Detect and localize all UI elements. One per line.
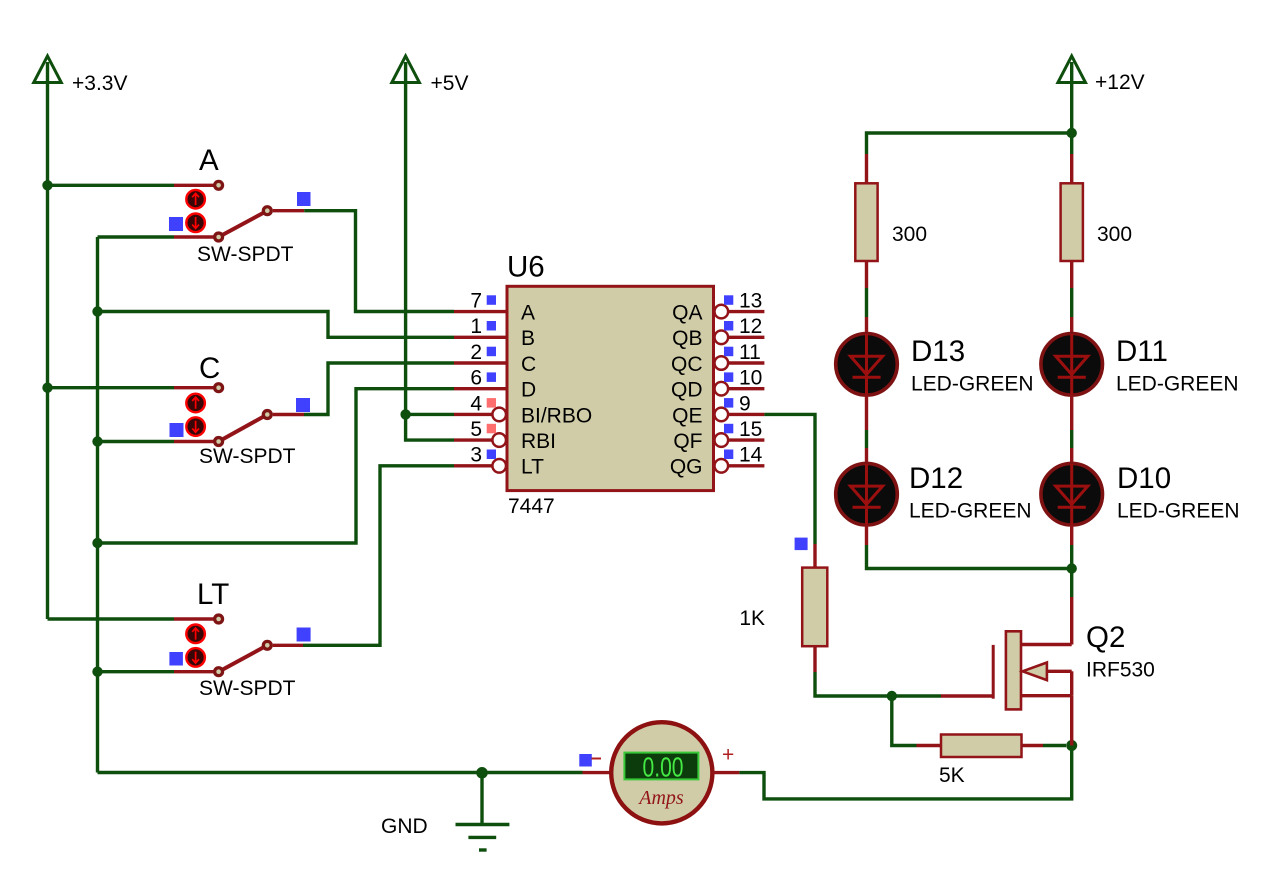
pin switch A top contact <box>174 184 214 187</box>
pin U6 D (6) <box>454 367 536 402</box>
wire ground rail vertical x=97.5 <box>96 237 99 773</box>
node +3.3V junction at switch A <box>42 180 52 190</box>
wire rail to U6 pin D <box>98 389 455 543</box>
switch A SW-SPDT <box>197 144 294 266</box>
op-amp U6 7447 body <box>507 251 714 519</box>
wire D12 bottom to drain rail <box>867 525 1072 569</box>
node rail junction C bottom <box>92 436 102 446</box>
pin U6 QG (14) <box>670 444 765 479</box>
svg-text:SW-SPDT: SW-SPDT <box>199 677 296 700</box>
svg-text:U6: U6 <box>507 251 545 284</box>
LED D12 LED-GREEN <box>836 462 1032 525</box>
pin switch C pole <box>273 413 304 416</box>
svg-text:LED-GREEN: LED-GREEN <box>911 373 1034 396</box>
wire 5K right to junction <box>1043 744 1066 747</box>
switch A up button <box>186 190 205 209</box>
ground <box>381 773 509 850</box>
node +12V junction <box>1067 128 1077 138</box>
pin Q2 gate <box>941 694 993 697</box>
svg-text:300: 300 <box>1097 223 1132 246</box>
svg-text:1K: 1K <box>739 607 765 630</box>
switch C down button <box>186 417 205 436</box>
pin U6 QC (11) <box>671 341 764 376</box>
svg-text:5: 5 <box>470 418 482 441</box>
transistor Q2 IRF530 <box>993 597 1155 746</box>
svg-text:15: 15 <box>739 418 762 441</box>
svg-text:300: 300 <box>892 223 927 246</box>
wire switch C bottom to rail <box>98 440 175 443</box>
pin U6 QD (10) <box>671 367 764 402</box>
svg-text:C: C <box>199 352 220 385</box>
svg-text:QF: QF <box>673 430 702 453</box>
svg-text:4: 4 <box>470 392 482 415</box>
wire +3.3V to switch C top <box>48 386 175 389</box>
svg-text:D10: D10 <box>1117 462 1171 495</box>
marker blue square switch C right <box>296 398 310 412</box>
wire switch A bottom to rail <box>98 235 175 238</box>
pin U6 QF (15) <box>673 418 764 453</box>
wire drain junction down <box>1070 569 1073 598</box>
svg-text:14: 14 <box>739 444 763 467</box>
svg-text:SW-SPDT: SW-SPDT <box>197 243 294 266</box>
wire ground bus to ammeter <box>98 771 583 774</box>
wire +12V rail down to junction <box>1070 82 1073 154</box>
svg-text:9: 9 <box>739 392 751 415</box>
svg-text:7: 7 <box>470 290 482 313</box>
marker blue square 1K <box>795 538 808 551</box>
LED D11 LED-GREEN <box>1041 334 1239 396</box>
pin U6 B (1) <box>454 315 535 350</box>
svg-text:+3.3V: +3.3V <box>72 72 127 95</box>
wire junction continues <box>1070 545 1073 569</box>
svg-text:BI/RBO: BI/RBO <box>521 404 592 427</box>
pin U6 QE (9) <box>672 392 764 427</box>
wire 300 right to D11 <box>1070 261 1073 334</box>
svg-text:5K: 5K <box>939 764 965 787</box>
LED D13 LED-GREEN <box>836 334 1034 396</box>
svg-text:LT: LT <box>521 456 544 479</box>
svg-text:D12: D12 <box>909 462 963 495</box>
svg-text:LED-GREEN: LED-GREEN <box>909 500 1032 523</box>
node rail junction LT bottom <box>92 667 102 677</box>
wire +3.3V rail vertical <box>46 82 49 619</box>
pin U6 LT (3) <box>454 444 544 479</box>
wire switch C pole to U6 pin C <box>304 363 454 415</box>
marker blue square switch A right <box>297 192 311 206</box>
power +3.3V symbol <box>34 56 128 95</box>
power +12V symbol <box>1058 56 1145 94</box>
wire switch A pole to U6 pin A <box>304 211 454 312</box>
svg-text:10: 10 <box>739 367 762 390</box>
resistor 300 right <box>1061 154 1132 261</box>
svg-text:6: 6 <box>470 367 482 390</box>
svg-text:C: C <box>521 353 536 376</box>
svg-text:11: 11 <box>739 341 761 364</box>
svg-text:2: 2 <box>470 341 482 364</box>
marker blue square ammeter <box>579 754 592 767</box>
pin 5K left <box>917 744 942 747</box>
wire junction down to resistor 5K <box>892 696 917 746</box>
svg-text:A: A <box>521 302 535 325</box>
ammeter Amps meter <box>611 722 712 823</box>
svg-text:A: A <box>199 144 219 177</box>
node source/5K junction <box>1066 740 1077 751</box>
wire D11 to D10 <box>1070 395 1073 464</box>
pin switch LT top contact <box>174 617 214 620</box>
wire D13 to D12 <box>865 395 868 464</box>
svg-text:+5V: +5V <box>431 72 469 95</box>
marker blue square switch A left <box>169 217 183 231</box>
wire top rail to left LED branch <box>867 133 1072 154</box>
svg-text:Q2: Q2 <box>1086 621 1125 654</box>
svg-text:LED-GREEN: LED-GREEN <box>1117 500 1240 523</box>
marker blue square switch LT right <box>297 628 311 642</box>
resistor 5K <box>939 735 1022 788</box>
wire +5V rail vertical <box>406 82 454 440</box>
marker blue square switch C left <box>170 423 184 437</box>
pin switch LT bottom contact <box>174 670 214 673</box>
svg-text:B: B <box>521 327 535 350</box>
pin switch C top contact <box>174 386 214 389</box>
wire 300 left to D13 <box>865 261 868 334</box>
wire rail to U6 pin B <box>98 312 455 338</box>
pin switch A bottom contact <box>174 235 214 238</box>
node rail junction B row <box>92 306 102 316</box>
pin U6 BI/RBO (4) <box>454 392 592 427</box>
svg-text:QC: QC <box>671 353 703 376</box>
node drain junction <box>1067 563 1077 573</box>
svg-text:QD: QD <box>671 379 703 402</box>
svg-text:GND: GND <box>381 815 428 838</box>
pin U6 QB (12) <box>672 315 764 350</box>
pin switch C bottom contact <box>174 440 214 443</box>
svg-text:QA: QA <box>672 302 702 325</box>
svg-text:IRF530: IRF530 <box>1086 659 1155 682</box>
switch LT down button <box>186 648 205 667</box>
pin 5K right <box>1022 744 1044 747</box>
wire +3.3V to switch LT top <box>48 617 175 620</box>
svg-text:QG: QG <box>670 456 703 479</box>
node gate/5K junction <box>887 691 897 701</box>
pin U6 QA (13) <box>672 290 764 325</box>
svg-text:Amps: Amps <box>637 787 684 809</box>
pin U6 RBI (5) <box>454 418 556 453</box>
svg-text:RBI: RBI <box>521 430 556 453</box>
wire ammeter positive to source junction <box>739 746 1071 799</box>
node rail junction D row <box>92 538 102 548</box>
svg-text:D13: D13 <box>911 335 965 368</box>
svg-text:D11: D11 <box>1116 335 1168 368</box>
node +5V junction BI/RBO <box>400 409 410 419</box>
wire +5V to BI/RBO pin <box>406 413 454 416</box>
svg-text:+: + <box>722 744 734 767</box>
wire QE to resistor 1K <box>764 414 815 544</box>
wire +3.3V to switch A top <box>48 184 175 187</box>
svg-text:LED-GREEN: LED-GREEN <box>1116 373 1239 396</box>
switch LT SW-SPDT <box>197 578 296 700</box>
wire switch LT pole to U6 pin LT <box>303 466 454 646</box>
svg-text:12: 12 <box>739 315 762 338</box>
switch C SW-SPDT <box>199 352 296 468</box>
pin 1K bottom <box>813 646 816 672</box>
marker blue square switch LT left <box>169 652 183 666</box>
svg-text:3: 3 <box>470 444 482 467</box>
svg-text:LT: LT <box>197 578 229 611</box>
ammeter minus label <box>592 758 602 760</box>
svg-text:QE: QE <box>672 404 702 427</box>
pin ammeter negative <box>583 771 612 774</box>
node ground junction <box>476 767 488 779</box>
svg-text:0.00: 0.00 <box>643 752 684 783</box>
switch LT up button <box>186 625 205 644</box>
power +5V symbol <box>392 56 469 95</box>
resistor 1K <box>739 568 827 647</box>
wire D10 bottom to junction <box>1070 525 1073 545</box>
pin U6 A (7) <box>454 290 535 325</box>
svg-text:QB: QB <box>672 327 702 350</box>
svg-text:D: D <box>521 379 536 402</box>
wire 1K bottom to Q2 gate <box>815 672 941 696</box>
svg-text:SW-SPDT: SW-SPDT <box>199 445 296 468</box>
LED D10 LED-GREEN <box>1041 462 1240 525</box>
svg-text:+12V: +12V <box>1095 71 1145 94</box>
switch A down button <box>186 214 205 233</box>
wire switch LT bottom to rail <box>98 670 175 673</box>
switch C up button <box>186 394 205 413</box>
pin U6 C (2) <box>454 341 536 376</box>
resistor 300 left <box>855 154 927 261</box>
node +3.3V junction at switch C <box>42 383 52 393</box>
pin 1K top <box>813 544 816 568</box>
svg-text:13: 13 <box>739 290 762 313</box>
pin switch A pole <box>273 209 304 212</box>
pin switch LT pole <box>273 644 303 647</box>
pin ammeter positive <box>713 771 740 774</box>
svg-text:7447: 7447 <box>508 495 555 518</box>
svg-text:1: 1 <box>470 315 482 338</box>
